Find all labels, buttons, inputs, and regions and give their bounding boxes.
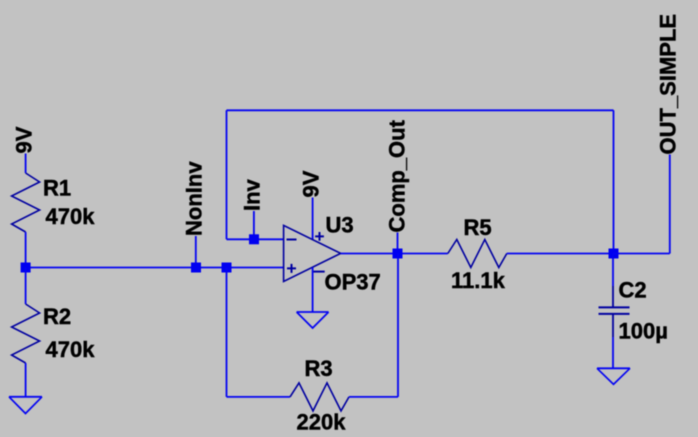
svg-text:R3: R3 bbox=[305, 356, 333, 381]
resistor R3 bbox=[290, 383, 349, 411]
svg-text:R2: R2 bbox=[43, 304, 71, 329]
ground (op-amp V-) bbox=[297, 311, 329, 313]
node junction (divider) bbox=[21, 263, 31, 273]
wire (C2 to ground) bbox=[612, 314, 614, 337]
wire (op-amp output) bbox=[341, 253, 448, 255]
capacitor C2 bbox=[599, 306, 630, 308]
ground (below R2) bbox=[9, 396, 42, 398]
svg-text:470k: 470k bbox=[46, 337, 96, 362]
wire bbox=[253, 211, 255, 239]
wire (top feedback loop: left vertical) bbox=[226, 110, 228, 239]
wire bbox=[507, 253, 614, 255]
svg-text:11.1k: 11.1k bbox=[451, 268, 506, 293]
svg-text:220k: 220k bbox=[297, 410, 347, 435]
wire (R3 bottom left) bbox=[227, 396, 291, 398]
wire (R3 right vertical) bbox=[397, 254, 399, 397]
svg-text:R1: R1 bbox=[43, 176, 71, 201]
resistor R1 bbox=[12, 173, 40, 232]
wire bbox=[25, 268, 27, 305]
svg-text:OP37: OP37 bbox=[325, 269, 381, 294]
wire (to inverting input) bbox=[227, 238, 284, 240]
pin - (V- supply mark) bbox=[313, 271, 325, 273]
wire (V- supply to ground) bbox=[312, 267, 314, 311]
op-amp U3 triangle bbox=[284, 225, 341, 281]
wire (main horizontal to op-amp +) bbox=[26, 267, 284, 269]
wire (R3 bottom right) bbox=[349, 396, 398, 398]
resistor R2 bbox=[12, 304, 40, 363]
wire (node to C2) bbox=[612, 254, 614, 287]
svg-text:9V: 9V bbox=[298, 170, 323, 197]
svg-text:OUT_SIMPLE: OUT_SIMPLE bbox=[656, 14, 681, 155]
svg-text:R5: R5 bbox=[464, 215, 492, 240]
svg-text:NonInv: NonInv bbox=[182, 161, 207, 236]
node junction (output node) bbox=[609, 249, 619, 259]
node junction (R3 tap on main wire) bbox=[222, 263, 232, 273]
pin + (non-inverting input mark) bbox=[287, 264, 296, 273]
wire (R3 left vertical) bbox=[226, 268, 228, 397]
wire (top feedback loop: horizontal) bbox=[227, 109, 614, 111]
wire bbox=[669, 155, 671, 254]
wire (top feedback loop: right vertical) bbox=[613, 110, 615, 253]
svg-text:C2: C2 bbox=[619, 278, 647, 303]
svg-text:Comp_Out: Comp_Out bbox=[385, 119, 410, 232]
node junction (NonInv) bbox=[191, 263, 201, 273]
pin + (V+ supply mark) bbox=[315, 232, 324, 241]
resistor R5 bbox=[448, 240, 507, 268]
wire bbox=[25, 154, 27, 174]
wire bbox=[397, 233, 399, 254]
wire bbox=[25, 232, 27, 268]
svg-text:9V: 9V bbox=[11, 126, 36, 153]
wire bbox=[195, 236, 197, 268]
svg-text:Inv: Inv bbox=[240, 178, 265, 211]
node junction (Inv) bbox=[249, 234, 259, 244]
ground (below C2) bbox=[597, 367, 630, 369]
pin - (inverting input mark) bbox=[287, 239, 297, 241]
svg-text:U3: U3 bbox=[326, 213, 354, 238]
wire (to OUT_SIMPLE) bbox=[614, 253, 670, 255]
svg-text:470k: 470k bbox=[46, 204, 96, 229]
node junction (Comp_Out) bbox=[393, 249, 403, 259]
wire (V+ supply) bbox=[312, 198, 314, 240]
svg-text:100µ: 100µ bbox=[619, 319, 668, 344]
wire bbox=[25, 363, 27, 396]
